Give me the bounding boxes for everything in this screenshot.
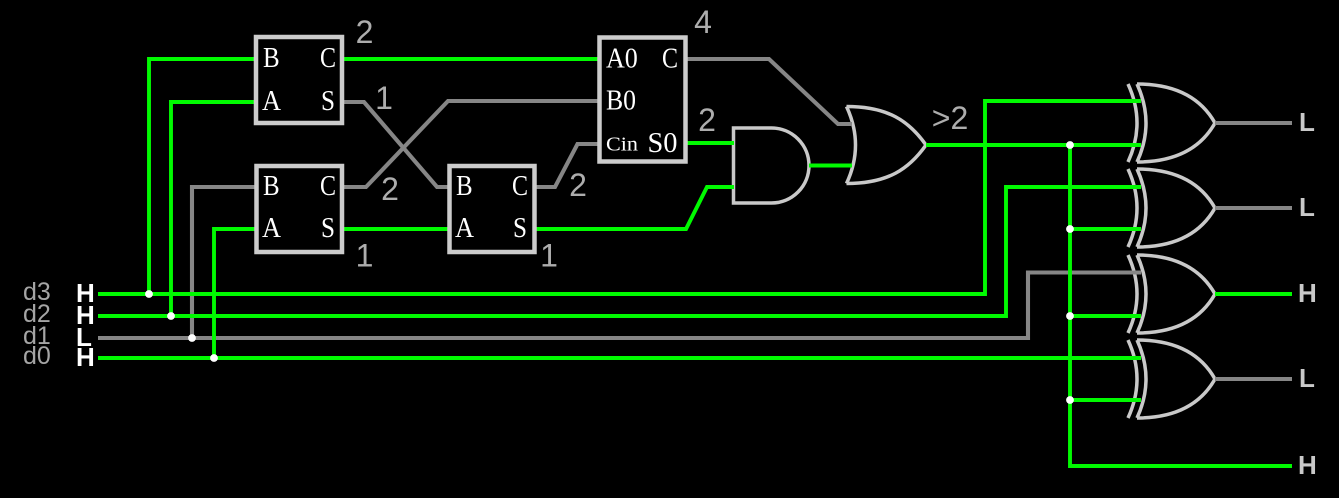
wire stub to X4 (1070, 398, 1141, 402)
node junction maj4 (1066, 396, 1074, 404)
svg-text:2: 2 (569, 167, 587, 203)
wire stub to X2 (1070, 227, 1141, 231)
xor gate X3 (1128, 255, 1215, 333)
node junction d0 (210, 354, 218, 362)
wire d0 branch to HA2 A (214, 229, 256, 358)
wire d3 input to xor X1 (98, 101, 1141, 294)
wire d2 branch to HA1 A (171, 102, 256, 316)
wire HA3 C to FA Cin (534, 144, 599, 187)
full adder FA (600, 38, 686, 162)
svg-text:S: S (321, 85, 335, 117)
svg-text:B0: B0 (606, 85, 636, 117)
wire majority net from or O1 to output H (926, 145, 1292, 466)
wire d1 branch to HA2 B (192, 187, 256, 338)
svg-text:L: L (1299, 107, 1315, 137)
xor gate X1 (1128, 84, 1215, 162)
wire d0 input to xor X4 (98, 356, 1141, 360)
node junction maj1 (1066, 141, 1074, 149)
svg-text:A: A (262, 85, 281, 117)
node junction d1 (188, 334, 196, 342)
wire d3 branch to HA1 B (149, 59, 256, 294)
node junction maj3 (1066, 312, 1074, 320)
svg-text:2: 2 (698, 102, 716, 138)
svg-text:4: 4 (694, 4, 712, 40)
svg-text:1: 1 (375, 80, 393, 116)
wire FA S0 to and A1 (686, 141, 734, 145)
svg-text:C: C (320, 170, 336, 202)
wire X4 output L (1215, 377, 1292, 381)
svg-text:A: A (262, 212, 281, 244)
svg-text:H: H (1298, 278, 1317, 308)
wire FA C to or O1 (686, 59, 852, 124)
svg-text:H: H (76, 342, 95, 372)
wire HA2 C to FA B0 (342, 101, 599, 187)
svg-text:L: L (1299, 363, 1315, 393)
svg-text:B: B (263, 170, 280, 202)
wire HA3 S to and A1 (534, 187, 734, 229)
wire stub to X1 (1070, 143, 1141, 147)
svg-text:2: 2 (356, 14, 374, 50)
svg-text:Cin: Cin (606, 134, 638, 156)
wire HA2 S to HA3 A (342, 227, 449, 231)
svg-text:2: 2 (381, 171, 399, 207)
svg-text:1: 1 (356, 238, 374, 274)
wire X3 output H (1215, 292, 1292, 296)
svg-text:S: S (321, 212, 335, 244)
svg-text:d0: d0 (23, 342, 51, 370)
half adder HA2 (257, 166, 343, 252)
wire stub to X3 (1070, 314, 1141, 318)
xor gate X4 (1128, 340, 1215, 418)
svg-text:C: C (320, 42, 336, 74)
svg-text:L: L (1299, 192, 1315, 222)
node junction maj2 (1066, 225, 1074, 233)
wire HA1 C to FA A0 (342, 57, 599, 61)
xor gate X2 (1128, 169, 1215, 247)
wire HA1 S to HA3 B (342, 102, 450, 187)
wire X1 output L (1215, 121, 1292, 125)
wire d2 input to xor X2 (98, 187, 1141, 316)
svg-text:A: A (455, 212, 474, 244)
svg-text:H: H (1298, 450, 1317, 480)
wire X2 output L (1215, 206, 1292, 210)
wire and A1 to or O1 (809, 164, 852, 168)
svg-text:A0: A0 (606, 43, 638, 75)
and gate A1 (734, 128, 810, 203)
node junction d2 (167, 312, 175, 320)
node junction d3 (145, 290, 153, 298)
svg-text:B: B (263, 42, 280, 74)
svg-text:B: B (456, 170, 473, 202)
half adder HA1 (256, 37, 342, 123)
svg-text:C: C (662, 43, 678, 75)
wire d1 input to xor X3 (98, 273, 1141, 339)
svg-text:S: S (513, 212, 527, 244)
svg-text:>2: >2 (932, 100, 968, 136)
svg-text:1: 1 (540, 238, 558, 274)
or gate O1 (847, 107, 927, 184)
svg-text:S0: S0 (648, 127, 678, 159)
svg-text:C: C (512, 170, 528, 202)
half adder HA3 (450, 166, 535, 252)
